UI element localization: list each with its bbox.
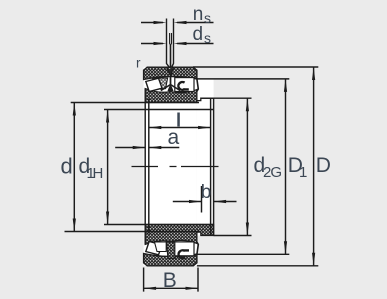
cage C bottom-right (dark) (179, 250, 189, 258)
joint line right (210, 98, 212, 235)
svg-text:a: a (168, 126, 180, 149)
right roller right edge bottom (dark) (197, 241, 199, 254)
svg-text:B: B (163, 269, 177, 292)
dimension line l with arrowheads (149, 127, 211, 129)
svg-text:d: d (193, 24, 204, 45)
right roller top (white) (175, 78, 194, 92)
clamping screw pin, center shank line (170, 45, 172, 84)
clamping screw pin, inner slot (U-shape) (170, 33, 172, 45)
svg-text:1: 1 (299, 164, 307, 181)
inner ring right face line (213, 98, 215, 235)
bore edge line top (extension line for d1H) (104, 109, 214, 111)
arrowheads for b dimension (189, 200, 226, 203)
dimension line d (73, 103, 75, 232)
dimension line B with extension lines (144, 268, 198, 292)
svg-text:D: D (316, 154, 331, 177)
svg-text:n: n (193, 4, 204, 25)
dimension line a (115, 147, 179, 149)
svg-text:s: s (204, 10, 211, 26)
d2G extension lines (201, 98, 252, 235)
dimension line D1 (285, 79, 287, 254)
inner ring right protrusion surface with lubrication groove step (197, 98, 214, 100)
left roller bottom (white, outlined) (146, 241, 162, 254)
D1 extension lines (197, 79, 289, 254)
dimension line ds (141, 43, 214, 45)
centerline (132, 166, 219, 168)
arrowheads for d and d1H dimensions (73, 103, 110, 232)
center rib bottom (hatched) (167, 242, 177, 258)
right roller bottom (white) (175, 242, 194, 256)
pin flare / cage guide (dark) (168, 85, 174, 92)
inner ring left face line (144, 89, 146, 245)
cage piece top-left (hatched) (152, 78, 167, 89)
joint line left (148, 99, 150, 234)
left roller top (white, outlined) (146, 78, 162, 91)
svg-text:r: r (136, 56, 141, 71)
arrowheads for l dimension (149, 126, 211, 129)
outer ring top (hatched) (144, 67, 197, 85)
bore edge line bottom (extension line for d1H) (104, 224, 214, 226)
svg-text:s: s (204, 30, 211, 46)
svg-text:2G: 2G (263, 164, 282, 181)
right roller right edge (dark) (197, 79, 199, 92)
arrowheads for B dimension (144, 287, 198, 290)
arrowheads for ns and ds dimensions (154, 21, 187, 45)
bore edge line bottom (extension line for d) (65, 231, 200, 233)
dimension line d2G (246, 98, 248, 235)
dimension line ns (141, 22, 214, 24)
arrowheads for a dimension (133, 146, 162, 149)
label l (177, 113, 180, 127)
svg-text:b: b (201, 182, 212, 203)
inner ring top (hatched) (145, 89, 197, 103)
clamping screw pin, outer contour lines (167, 19, 174, 68)
dimension line D (313, 67, 315, 266)
white drawing interior (144, 67, 197, 266)
D extension lines (193, 67, 318, 266)
outer ring bottom (hatched) (144, 254, 197, 266)
dimension line d1H (107, 110, 109, 225)
cage C top-right (dark) (178, 82, 188, 90)
inner ring bottom (hatched) (145, 225, 213, 245)
dimension line b with extension line (173, 201, 237, 203)
pin entry wedge in outer ring (167, 69, 172, 75)
svg-text:d: d (61, 154, 73, 179)
extra white patch bottom-left (155, 242, 167, 252)
bore edge line top (extension line for d) (71, 102, 199, 104)
svg-text:H: H (93, 165, 104, 182)
arrowheads for d2G, D1, D dimensions (246, 67, 315, 266)
